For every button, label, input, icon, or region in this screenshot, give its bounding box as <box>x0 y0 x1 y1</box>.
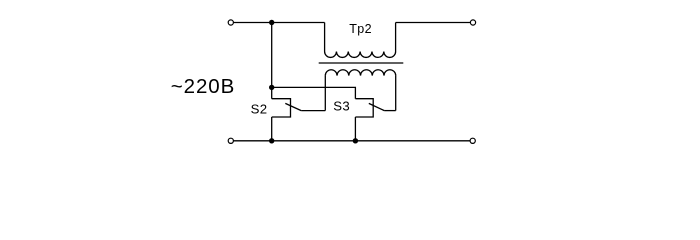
switch S2 contact frame <box>272 99 291 117</box>
junction dot S2 top <box>269 85 274 90</box>
wire secondary right lead <box>395 76 397 111</box>
wire S2 pole <box>301 110 325 112</box>
terminal bottom-right <box>470 138 475 143</box>
junction dot top <box>269 20 274 25</box>
wire branch S2 to S3 <box>272 87 356 98</box>
wire top-right <box>396 22 471 24</box>
switch S3 blade <box>369 103 385 110</box>
svg-text:S3: S3 <box>333 98 350 113</box>
switch S2 bottom lead <box>271 117 273 141</box>
svg-text:~220B: ~220B <box>171 75 235 98</box>
wire left vertical from top wire to S2 <box>271 23 273 99</box>
wire S3 pole <box>384 110 395 112</box>
junction dot bottom right <box>353 138 358 143</box>
wire secondary left lead <box>324 76 326 111</box>
switch S3 contact frame <box>355 99 373 117</box>
svg-text:S2: S2 <box>251 101 268 116</box>
terminal bottom-left <box>228 138 233 143</box>
wire primary left lead <box>324 23 326 52</box>
wire primary right lead <box>395 23 397 52</box>
switch S3 bottom lead <box>354 117 356 141</box>
terminal top-right <box>470 20 475 25</box>
svg-text:Tp2: Tp2 <box>349 22 372 36</box>
wire bottom <box>234 140 471 142</box>
wire top-left <box>234 22 325 24</box>
terminal top-left <box>228 20 233 25</box>
transformer core <box>319 62 404 64</box>
switch S2 blade <box>285 103 301 110</box>
transformer T1 primary winding <box>325 52 396 58</box>
junction dot bottom left <box>269 138 274 143</box>
transformer secondary winding <box>325 70 395 76</box>
